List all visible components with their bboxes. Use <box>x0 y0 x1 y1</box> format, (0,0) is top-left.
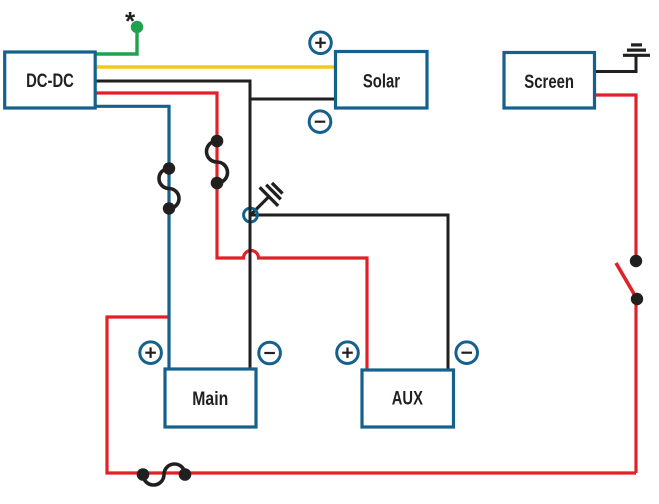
Solar panel box <box>336 52 428 109</box>
wire black DC-DC negative trunk <box>95 81 250 369</box>
DC-DC converter U1 <box>5 52 96 108</box>
wire red Screen feed right side <box>595 95 637 256</box>
wire black branch node to AUX negative <box>250 215 448 370</box>
AUX battery box <box>362 370 454 427</box>
chassis ground at node <box>241 179 286 224</box>
fuse F2 on red wire <box>207 135 228 190</box>
polarity marker AUX minus <box>456 342 478 364</box>
polarity marker AUX plus <box>337 342 359 364</box>
fuse F3 on bottom red wire <box>137 464 192 485</box>
polarity marker Solar minus <box>309 111 331 133</box>
svg-text:Solar: Solar <box>363 72 401 93</box>
polarity marker Main minus <box>259 342 281 364</box>
svg-text:Main: Main <box>192 389 228 410</box>
node ring junction <box>244 208 258 222</box>
wire red Main positive feed <box>107 317 636 473</box>
polarity marker Solar plus <box>310 32 332 54</box>
earth ground symbol <box>623 45 650 55</box>
wire blue DC-DC to Main positive <box>95 106 169 369</box>
Main battery box <box>165 369 256 427</box>
wire black branch to Solar negative <box>250 98 336 101</box>
svg-text:DC-DC: DC-DC <box>26 71 74 92</box>
wire red below switch <box>634 299 637 473</box>
switch S1 <box>616 255 643 305</box>
svg-text:Screen: Screen <box>524 72 574 93</box>
Screen box <box>504 53 595 109</box>
wire yellow DC-DC to Solar positive <box>95 65 336 68</box>
fuse F1 on blue wire <box>159 162 179 214</box>
polarity marker Main plus <box>140 342 162 364</box>
node ignition green dot <box>131 21 143 33</box>
wire green stub from DC-DC to ignition dot <box>95 27 137 54</box>
label asterisk <box>125 6 136 36</box>
svg-text:AUX: AUX <box>392 388 423 409</box>
wire red DC-DC to AUX positive <box>95 93 367 370</box>
svg-text:*: * <box>125 6 136 36</box>
wire black Screen to earth ground <box>595 55 637 72</box>
